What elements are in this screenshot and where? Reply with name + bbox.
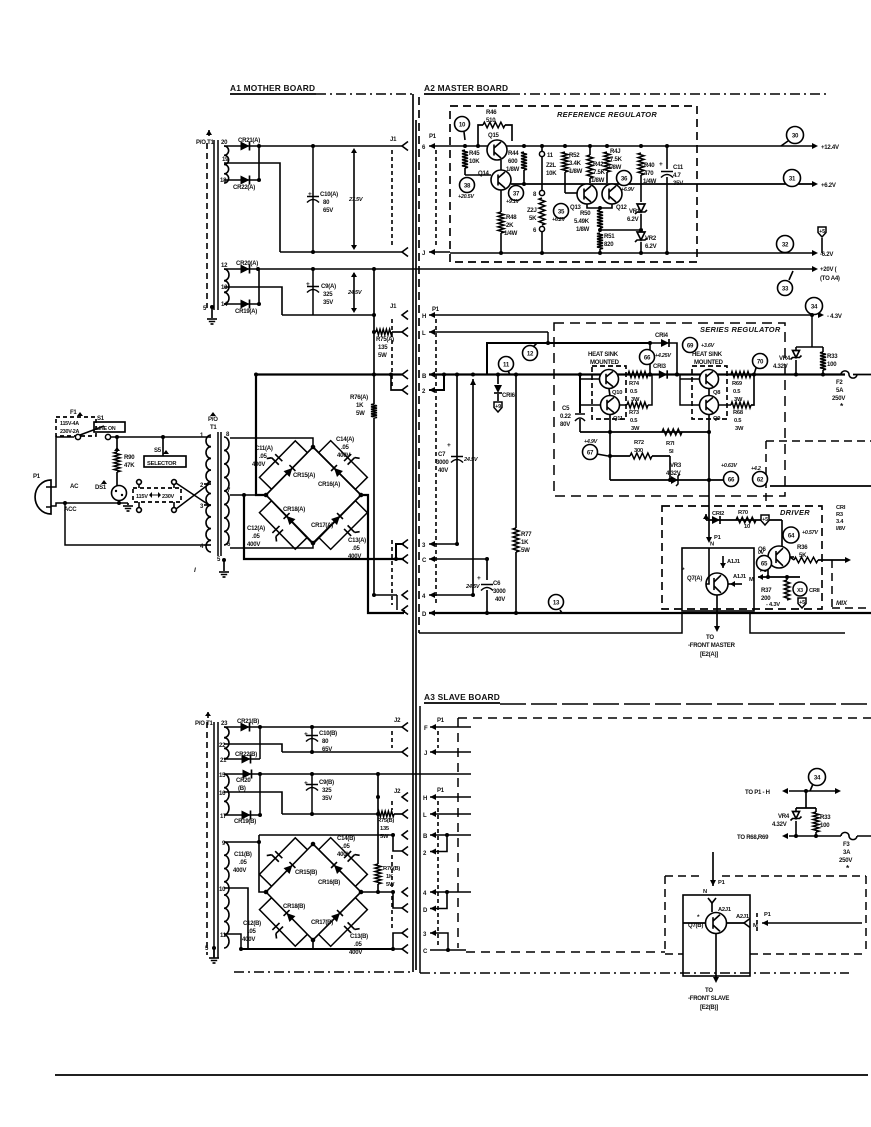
svg-text:MOUNTED: MOUNTED [590, 360, 620, 366]
svg-text:4.32V: 4.32V [772, 822, 787, 828]
svg-text:37: 37 [513, 190, 520, 197]
svg-text:Q7(A): Q7(A) [687, 576, 702, 582]
svg-text:470: 470 [644, 171, 654, 177]
svg-text:Q15: Q15 [488, 133, 500, 139]
svg-text:2K: 2K [506, 223, 514, 229]
svg-text:Z2L: Z2L [546, 163, 557, 169]
svg-text:N: N [710, 542, 714, 548]
svg-text:100: 100 [827, 362, 837, 368]
svg-text:+12.4V: +12.4V [821, 145, 839, 151]
svg-text:.05: .05 [248, 929, 257, 935]
svg-text:600: 600 [508, 159, 518, 165]
svg-text:R75(A): R75(A) [376, 337, 394, 343]
svg-text:CR22(A): CR22(A) [233, 185, 255, 191]
svg-text:R90: R90 [124, 455, 135, 461]
svg-text:Z2J: Z2J [527, 208, 537, 214]
svg-text:+: + [306, 281, 310, 288]
svg-text:F2: F2 [836, 380, 843, 386]
svg-text:C9(B): C9(B) [319, 780, 334, 786]
svg-text:1/8W: 1/8W [591, 178, 605, 184]
svg-text:L: L [423, 813, 427, 819]
svg-text:32: 32 [782, 241, 789, 248]
svg-text:.05: .05 [354, 942, 363, 948]
svg-text:A1J1: A1J1 [727, 559, 741, 565]
svg-text:TO: TO [705, 988, 713, 994]
svg-text:.05: .05 [341, 445, 350, 451]
svg-text:DS1: DS1 [95, 485, 107, 491]
svg-text:5W: 5W [521, 548, 530, 554]
svg-text:5I: 5I [669, 449, 674, 455]
svg-text:12: 12 [221, 263, 228, 269]
svg-text:C11(B): C11(B) [234, 852, 252, 858]
svg-text:10K: 10K [469, 159, 480, 165]
svg-text:+5: +5 [799, 600, 805, 606]
svg-text:5.49K: 5.49K [574, 219, 590, 225]
svg-text:C14(B): C14(B) [337, 836, 355, 842]
svg-text:13: 13 [553, 599, 560, 606]
svg-text:VR4: VR4 [778, 814, 790, 820]
svg-text:VR3: VR3 [670, 463, 682, 469]
svg-text:VR4: VR4 [779, 356, 791, 362]
svg-text:TO R68,R69: TO R68,R69 [737, 835, 769, 841]
svg-text:80V: 80V [560, 422, 570, 428]
svg-text:11: 11 [547, 153, 554, 159]
svg-text:- 4.3V: - 4.3V [766, 602, 780, 608]
svg-text:3000: 3000 [436, 460, 449, 466]
svg-text:+6.2V: +6.2V [552, 217, 566, 223]
svg-text:3000: 3000 [493, 589, 506, 595]
svg-text:35: 35 [558, 208, 565, 215]
svg-text:P1: P1 [764, 912, 772, 918]
svg-text:70: 70 [757, 358, 764, 365]
svg-text:7.5K: 7.5K [610, 157, 623, 163]
svg-text:LINE ON: LINE ON [96, 426, 116, 432]
svg-text:11: 11 [503, 361, 510, 368]
svg-text:6.2V: 6.2V [645, 244, 657, 250]
svg-text:R40: R40 [644, 163, 655, 169]
svg-text:230V: 230V [162, 494, 175, 500]
svg-text:115V-4A: 115V-4A [60, 421, 79, 427]
svg-text:[E2(A)]: [E2(A)] [700, 652, 718, 658]
svg-text:TO: TO [706, 635, 714, 641]
svg-text:C10(B): C10(B) [319, 731, 337, 737]
svg-text:REFERENCE REGULATOR: REFERENCE REGULATOR [557, 110, 657, 119]
svg-text:+: + [477, 575, 481, 582]
svg-text:510: 510 [486, 118, 496, 124]
svg-text:10: 10 [459, 121, 466, 128]
svg-text:R74: R74 [629, 381, 640, 387]
svg-text:C11(A): C11(A) [255, 446, 273, 452]
svg-text:CR19(A): CR19(A) [235, 309, 257, 315]
svg-text:CR16(B): CR16(B) [318, 880, 340, 886]
svg-text:R7I: R7I [666, 441, 675, 447]
svg-text:325: 325 [323, 292, 333, 298]
svg-text:24.5V: 24.5V [465, 584, 481, 590]
svg-text:M: M [749, 577, 754, 583]
svg-text:0.5: 0.5 [630, 389, 638, 395]
svg-text:F: F [424, 726, 428, 732]
svg-text:1/8W: 1/8W [569, 169, 583, 175]
svg-text:J2: J2 [394, 789, 401, 795]
svg-text:AC: AC [70, 484, 79, 490]
svg-text:3W: 3W [735, 426, 744, 432]
svg-text:+: + [308, 191, 312, 198]
svg-text:C9(A): C9(A) [321, 284, 336, 290]
svg-text:P/O T1: P/O T1 [196, 140, 214, 146]
svg-text:P1: P1 [437, 788, 445, 794]
svg-text:A2J1: A2J1 [718, 907, 732, 913]
svg-text:R3: R3 [836, 512, 843, 518]
svg-text:400V: 400V [337, 852, 350, 858]
svg-text:7.5K: 7.5K [593, 170, 606, 176]
svg-text:65V: 65V [322, 747, 332, 753]
svg-text:R75(B): R75(B) [377, 818, 394, 824]
svg-text:I/8V: I/8V [836, 526, 846, 532]
svg-text:10K: 10K [546, 171, 557, 177]
svg-text:Q9: Q9 [713, 416, 720, 422]
svg-text:400V: 400V [337, 453, 350, 459]
svg-text:H: H [422, 314, 426, 320]
svg-text:40V: 40V [438, 468, 448, 474]
svg-text:65V: 65V [323, 208, 333, 214]
svg-text:24.5V: 24.5V [347, 290, 363, 296]
svg-text:R45: R45 [469, 151, 480, 157]
svg-text:3.4K: 3.4K [569, 161, 582, 167]
svg-text:34: 34 [811, 303, 818, 310]
svg-text:69: 69 [687, 342, 694, 349]
svg-text:R44: R44 [508, 151, 519, 157]
svg-text:CR18(A): CR18(A) [283, 507, 305, 513]
svg-text:J2: J2 [394, 718, 401, 724]
svg-text:-FRONT SLAVE: -FRONT SLAVE [688, 996, 729, 1002]
svg-text:C12(A): C12(A) [247, 526, 265, 532]
svg-text:5K: 5K [799, 553, 807, 559]
svg-text:1/4W: 1/4W [643, 179, 657, 185]
svg-text:10: 10 [744, 524, 750, 530]
svg-text:VR2: VR2 [645, 236, 657, 242]
svg-text:P/O: P/O [208, 417, 218, 423]
svg-text:+3.6V: +3.6V [701, 343, 715, 349]
svg-text:J1: J1 [390, 137, 397, 143]
svg-text:(TO A4): (TO A4) [820, 276, 840, 282]
svg-text:CR15(A): CR15(A) [293, 473, 315, 479]
svg-text:R73: R73 [629, 410, 639, 416]
svg-text:F1: F1 [70, 410, 77, 416]
svg-text:.05: .05 [259, 454, 268, 460]
svg-text:+20V (: +20V ( [820, 267, 837, 273]
svg-text:+4.25V: +4.25V [655, 353, 671, 359]
svg-text:1/8W: 1/8W [576, 227, 590, 233]
svg-text:C10(A): C10(A) [320, 192, 338, 198]
svg-text:CR21(B): CR21(B) [237, 719, 259, 725]
svg-text:CR17(B): CR17(B) [311, 920, 333, 926]
svg-text:5W: 5W [356, 411, 365, 417]
svg-text:[E2(B)]: [E2(B)] [700, 1005, 718, 1011]
svg-text:CRI2: CRI2 [712, 511, 724, 517]
svg-text:27.5V: 27.5V [348, 197, 364, 203]
svg-text:Q7(B): Q7(B) [688, 923, 703, 929]
svg-text:325: 325 [322, 788, 332, 794]
svg-text:820: 820 [604, 242, 614, 248]
svg-text:18: 18 [220, 178, 227, 184]
svg-text:+: + [304, 780, 308, 787]
svg-text:0.5: 0.5 [733, 389, 741, 395]
svg-text:+4.9V: +4.9V [584, 439, 598, 445]
svg-text:R33: R33 [820, 815, 831, 821]
svg-text:+: + [447, 442, 451, 449]
svg-text:64: 64 [788, 532, 795, 539]
svg-text:+0.57V: +0.57V [802, 530, 818, 536]
svg-text:5A: 5A [836, 388, 844, 394]
svg-text:P1: P1 [714, 535, 722, 541]
svg-text:S5: S5 [154, 448, 162, 454]
svg-text:CRII: CRII [809, 588, 820, 594]
svg-text:5W: 5W [386, 882, 395, 888]
svg-text:66: 66 [644, 354, 651, 361]
svg-text:CRI3: CRI3 [653, 364, 667, 370]
svg-text:C12(B): C12(B) [243, 921, 261, 927]
svg-text:P1: P1 [33, 474, 41, 480]
svg-text:R72: R72 [634, 440, 644, 446]
svg-text:HEAT SINK: HEAT SINK [588, 352, 619, 358]
svg-text:47K: 47K [124, 463, 135, 469]
svg-text:40V: 40V [495, 597, 505, 603]
svg-text:J1: J1 [390, 304, 397, 310]
svg-text:R77: R77 [521, 532, 532, 538]
svg-text:62: 62 [757, 476, 764, 483]
svg-text:HEAT SINK: HEAT SINK [692, 352, 723, 358]
svg-text:H: H [423, 796, 427, 802]
svg-text:+5: +5 [762, 517, 768, 523]
svg-text:400V: 400V [349, 950, 362, 956]
svg-text:14: 14 [221, 302, 228, 308]
svg-text:CR20(A): CR20(A) [236, 261, 258, 267]
svg-text:CRI6: CRI6 [502, 393, 516, 399]
svg-text:66: 66 [728, 476, 735, 483]
svg-text:P/O T1: P/O T1 [195, 721, 213, 727]
svg-text:P1: P1 [429, 134, 437, 140]
svg-text:.05: .05 [352, 546, 361, 552]
svg-text:A3 SLAVE BOARD: A3 SLAVE BOARD [424, 692, 500, 702]
svg-text:5K: 5K [529, 216, 537, 222]
svg-text:CR20: CR20 [236, 778, 251, 784]
svg-text:23: 23 [221, 721, 228, 727]
svg-text:34: 34 [814, 774, 821, 781]
svg-text:R68: R68 [733, 410, 744, 416]
svg-text:TO P1 - H: TO P1 - H [745, 790, 770, 796]
svg-text:CR16(A): CR16(A) [318, 482, 340, 488]
svg-text:400V: 400V [247, 542, 260, 548]
svg-text:C6: C6 [493, 581, 501, 587]
svg-text:1/8W: 1/8W [608, 165, 622, 171]
svg-text:1K: 1K [521, 540, 529, 546]
svg-text:+20.5V: +20.5V [458, 194, 474, 200]
svg-text:R76(A): R76(A) [350, 395, 368, 401]
svg-text:CR17(A): CR17(A) [311, 523, 333, 529]
svg-text:Q14: Q14 [478, 171, 490, 177]
svg-text:A2J1: A2J1 [736, 914, 750, 920]
svg-text:CRI4: CRI4 [655, 333, 669, 339]
svg-text:A1 MOTHER BOARD: A1 MOTHER BOARD [230, 83, 315, 93]
svg-text:0.22: 0.22 [560, 414, 572, 420]
svg-text:38: 38 [464, 182, 471, 189]
svg-text:19: 19 [222, 157, 229, 163]
svg-text:R69: R69 [732, 381, 742, 387]
svg-text:+9: +9 [495, 404, 501, 410]
svg-text:CRI: CRI [836, 505, 846, 511]
svg-text:100: 100 [820, 823, 830, 829]
svg-text:X3: X3 [797, 588, 803, 594]
svg-text:R37: R37 [761, 588, 772, 594]
svg-text:135: 135 [380, 826, 390, 832]
svg-text:DRIVER: DRIVER [780, 508, 810, 517]
svg-text:4.32V: 4.32V [773, 364, 788, 370]
svg-text:R50: R50 [580, 211, 591, 217]
svg-text:+: + [659, 161, 663, 168]
svg-text:SERIES REGULATOR: SERIES REGULATOR [700, 325, 781, 334]
svg-text:3.4: 3.4 [836, 519, 844, 525]
svg-text:MOUNTED: MOUNTED [694, 360, 724, 366]
svg-text:300: 300 [634, 448, 643, 454]
svg-text:80: 80 [322, 739, 329, 745]
svg-text:1K: 1K [356, 403, 364, 409]
svg-text:.05: .05 [252, 534, 261, 540]
svg-text:+0.63V: +0.63V [721, 463, 737, 469]
svg-text:35V: 35V [673, 181, 683, 187]
svg-text:+6.2V: +6.2V [821, 183, 836, 189]
svg-text:+5: +5 [819, 229, 825, 235]
svg-text:S1: S1 [97, 416, 105, 422]
svg-text:R36: R36 [797, 545, 808, 551]
svg-text:6.2V: 6.2V [627, 217, 639, 223]
svg-text:CR21(A): CR21(A) [238, 138, 260, 144]
svg-text:+9.1V: +9.1V [506, 199, 520, 205]
svg-text:3A: 3A [843, 850, 851, 856]
svg-text:F3: F3 [843, 842, 850, 848]
svg-text:.05: .05 [239, 860, 248, 866]
svg-text:VR1: VR1 [629, 209, 641, 215]
svg-text:250V: 250V [832, 396, 845, 402]
svg-text:R51: R51 [604, 234, 615, 240]
svg-text:J: J [424, 751, 427, 757]
svg-text:115V: 115V [136, 494, 148, 500]
svg-text:0.5: 0.5 [630, 418, 638, 424]
svg-text:12: 12 [527, 350, 534, 357]
svg-text:Q8: Q8 [713, 390, 721, 396]
svg-text:R70: R70 [738, 510, 748, 516]
svg-text:SELECTOR: SELECTOR [147, 461, 177, 467]
svg-text:C5: C5 [562, 406, 570, 412]
svg-text:1/4W: 1/4W [504, 231, 518, 237]
svg-text:400V: 400V [233, 868, 246, 874]
svg-text:80: 80 [323, 200, 330, 206]
svg-text:36: 36 [621, 175, 628, 182]
svg-text:ACC: ACC [64, 507, 77, 513]
svg-text:R4J: R4J [610, 149, 620, 155]
svg-text:P1: P1 [432, 307, 440, 313]
svg-text:5W: 5W [378, 353, 387, 359]
svg-text:A1J1: A1J1 [733, 574, 747, 580]
svg-text:C13(A): C13(A) [348, 538, 366, 544]
svg-text:1/8W: 1/8W [506, 167, 520, 173]
svg-text:C11: C11 [673, 165, 684, 171]
svg-text:400V: 400V [252, 462, 265, 468]
svg-text:P1: P1 [437, 718, 445, 724]
svg-text:CR19(B): CR19(B) [234, 819, 256, 825]
svg-text:R52: R52 [569, 153, 580, 159]
svg-text:CR22(B): CR22(B) [235, 752, 257, 758]
svg-text:35V: 35V [323, 300, 333, 306]
svg-text:20: 20 [221, 140, 228, 146]
svg-text:R48: R48 [506, 215, 517, 221]
svg-text:4.7: 4.7 [673, 173, 682, 179]
svg-text:MIX: MIX [836, 600, 848, 607]
svg-text:L: L [422, 331, 426, 337]
svg-text:-FRONT MASTER: -FRONT MASTER [688, 643, 736, 649]
svg-text:0.5: 0.5 [734, 418, 742, 424]
svg-text:- 4.3V: - 4.3V [827, 314, 842, 320]
svg-text:30: 30 [792, 132, 799, 139]
svg-text:+6.9V: +6.9V [621, 187, 635, 193]
svg-text:P1: P1 [718, 880, 726, 886]
svg-text:24.5V: 24.5V [463, 457, 479, 463]
svg-text:R33: R33 [827, 354, 838, 360]
svg-text:3W: 3W [631, 426, 640, 432]
svg-text:A2 MASTER BOARD: A2 MASTER BOARD [424, 83, 508, 93]
svg-text:CR15(B): CR15(B) [295, 870, 317, 876]
svg-text:.05: .05 [342, 844, 351, 850]
svg-text:35V: 35V [322, 796, 332, 802]
svg-text:C7: C7 [438, 452, 446, 458]
svg-text:31: 31 [789, 175, 796, 182]
svg-text:Q11: Q11 [613, 416, 624, 422]
svg-text:J: J [422, 251, 425, 257]
svg-text:13: 13 [221, 285, 228, 291]
svg-text:C13(B): C13(B) [350, 934, 368, 940]
svg-text:R46: R46 [486, 110, 497, 116]
svg-text:67: 67 [587, 449, 594, 456]
svg-text:65: 65 [761, 560, 768, 567]
svg-text:33: 33 [782, 285, 789, 292]
svg-text:0V: 0V [758, 550, 765, 556]
svg-text:T1: T1 [210, 425, 217, 431]
svg-text:C14(A): C14(A) [336, 437, 354, 443]
svg-text:CR18(B): CR18(B) [283, 904, 305, 910]
svg-text:N: N [703, 889, 707, 895]
svg-text:(B): (B) [238, 786, 246, 792]
svg-text:135: 135 [378, 345, 388, 351]
svg-text:4.32V: 4.32V [666, 471, 681, 477]
svg-text:Q10: Q10 [612, 390, 622, 396]
svg-text:+: + [304, 731, 308, 738]
svg-text:Q12: Q12 [616, 205, 628, 211]
